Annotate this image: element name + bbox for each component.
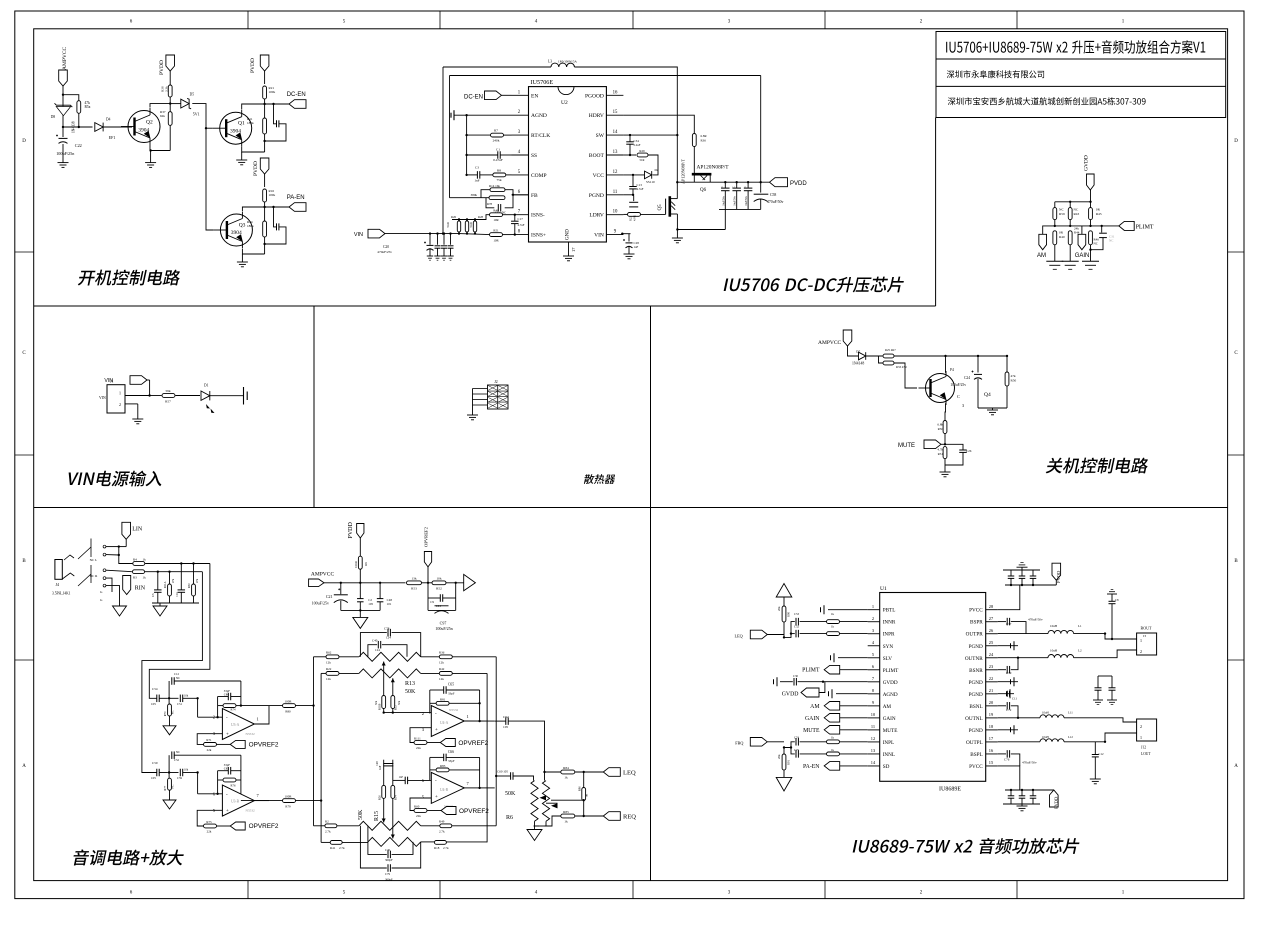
svg-text:R44: R44	[1074, 230, 1080, 234]
svg-text:1k: 1k	[143, 558, 147, 562]
svg-text:U3-B: U3-B	[231, 800, 240, 804]
svg-text:1nF: 1nF	[379, 765, 382, 770]
svg-text:FRQ: FRQ	[735, 741, 743, 746]
svg-text:3904: 3904	[138, 127, 149, 133]
svg-text:D5: D5	[190, 93, 195, 97]
svg-text:NC: NC	[172, 784, 175, 788]
svg-text:PA-EN: PA-EN	[803, 764, 820, 770]
svg-text:NC: NC	[1074, 208, 1079, 212]
svg-text:RIN: RIN	[135, 586, 146, 592]
svg-text:LEQ: LEQ	[623, 770, 636, 777]
svg-text:51R: 51R	[639, 158, 644, 162]
svg-text:0R: 0R	[1059, 231, 1064, 235]
svg-text:4: 4	[872, 640, 875, 645]
svg-text:GVDD: GVDD	[782, 691, 799, 697]
svg-text:10uH: 10uH	[1050, 649, 1058, 653]
svg-text:17: 17	[989, 736, 994, 741]
svg-text:R76: R76	[230, 784, 236, 788]
svg-text:1: 1	[1140, 735, 1142, 740]
svg-text:360pF: 360pF	[385, 858, 393, 862]
svg-text:OPVREF2: OPVREF2	[423, 526, 428, 547]
svg-text:180k: 180k	[247, 224, 254, 228]
svg-text:3: 3	[728, 891, 731, 896]
svg-text:NC: NC	[172, 710, 175, 714]
svg-text:20k: 20k	[777, 606, 781, 611]
svg-text:PGND: PGND	[969, 680, 983, 686]
svg-text:12k: 12k	[326, 661, 331, 665]
svg-text:R11B: R11B	[379, 703, 382, 710]
svg-text:360pF: 360pF	[385, 878, 393, 882]
svg-text:1: 1	[1122, 891, 1125, 896]
svg-text:HDRV: HDRV	[589, 113, 604, 119]
svg-text:R30: R30	[938, 427, 944, 431]
svg-text:C12: C12	[1099, 752, 1105, 756]
svg-text:J12: J12	[1141, 746, 1146, 750]
svg-text:33pF: 33pF	[448, 759, 455, 763]
svg-text:PVDD: PVDD	[253, 161, 259, 176]
svg-text:26: 26	[989, 628, 994, 633]
svg-text:C26: C26	[966, 449, 972, 453]
svg-text:47k: 47k	[196, 578, 199, 583]
svg-text:7: 7	[257, 793, 260, 798]
svg-text:3.5PH_J4K1: 3.5PH_J4K1	[52, 592, 71, 596]
svg-text:15: 15	[613, 110, 618, 115]
svg-text:IU8689E: IU8689E	[939, 787, 961, 793]
svg-text:C77: C77	[1006, 622, 1012, 626]
svg-text:AMPVCC: AMPVCC	[818, 340, 842, 346]
svg-text:1: 1	[1122, 20, 1125, 25]
svg-text:PGND: PGND	[589, 193, 604, 199]
svg-text:U2: U2	[561, 100, 568, 106]
svg-text:2.7k: 2.7k	[339, 846, 345, 850]
svg-text:1k: 1k	[831, 748, 835, 752]
svg-text:U4-A: U4-A	[440, 721, 449, 725]
svg-text:R81: R81	[440, 697, 446, 701]
svg-text:R84: R84	[563, 766, 569, 770]
svg-text:R71: R71	[206, 738, 212, 742]
svg-text:22k: 22k	[207, 748, 212, 752]
svg-text:Q5: Q5	[658, 204, 663, 211]
svg-text:R36: R36	[701, 139, 707, 143]
svg-text:C: C	[22, 351, 26, 356]
svg-text:NC: NC	[176, 750, 180, 754]
svg-text:105: 105	[368, 602, 373, 606]
svg-text:10uF/50v: 10uF/50v	[734, 195, 737, 206]
svg-text:2: 2	[920, 20, 923, 25]
svg-text:C5: C5	[151, 593, 155, 597]
svg-text:PVDD: PVDD	[159, 60, 165, 75]
svg-text:1: 1	[872, 604, 874, 609]
svg-text:12: 12	[871, 736, 875, 741]
svg-text:7mR: 7mR	[469, 222, 473, 228]
svg-text:GAIN: GAIN	[805, 716, 820, 722]
svg-text:22k: 22k	[416, 814, 421, 818]
svg-text:9: 9	[614, 230, 617, 235]
svg-text:GAIN: GAIN	[1075, 253, 1090, 259]
svg-text:D8: D8	[51, 115, 56, 119]
svg-text:2: 2	[872, 616, 874, 621]
svg-text:2.7k: 2.7k	[443, 846, 449, 850]
svg-text:11: 11	[871, 724, 875, 729]
svg-text:PVDD: PVDD	[1054, 796, 1059, 809]
svg-text:16: 16	[989, 748, 994, 753]
svg-text:IU5706E: IU5706E	[531, 79, 554, 86]
svg-text:L1: L1	[1078, 624, 1082, 628]
svg-text:PVDD: PVDD	[1056, 570, 1061, 583]
svg-text:R60: R60	[414, 804, 420, 808]
svg-text:50k: 50k	[375, 700, 378, 705]
svg-text:1nF: 1nF	[399, 776, 404, 779]
svg-text:2.2uF: 2.2uF	[634, 143, 641, 147]
svg-text:R83: R83	[440, 764, 446, 768]
svg-text:4: 4	[535, 891, 538, 896]
svg-text:D1: D1	[204, 384, 209, 388]
svg-text:OUTPL: OUTPL	[966, 740, 983, 746]
svg-text:R29: R29	[639, 149, 645, 153]
svg-text:22: 22	[989, 676, 993, 681]
svg-text:C79: C79	[1006, 671, 1012, 675]
svg-text:D7: D7	[856, 350, 860, 354]
svg-text:470uF/50v: 470uF/50v	[1022, 761, 1037, 765]
svg-text:+: +	[435, 795, 438, 800]
svg-text:PVDD: PVDD	[348, 521, 354, 538]
svg-text:SW: SW	[596, 133, 605, 139]
svg-text:7: 7	[518, 210, 521, 215]
svg-text:DC-EN: DC-EN	[464, 94, 483, 100]
svg-text:2: 2	[1140, 649, 1142, 654]
svg-text:21: 21	[989, 688, 993, 693]
svg-text:1nF: 1nF	[474, 179, 479, 183]
svg-text:EF1: EF1	[109, 135, 116, 140]
svg-text:R14: R14	[395, 795, 398, 800]
svg-text:1: 1	[467, 714, 469, 719]
svg-text:1: 1	[119, 391, 121, 396]
svg-text:AMPVCC: AMPVCC	[62, 46, 68, 70]
svg-text:7: 7	[467, 781, 470, 786]
svg-text:10uF/50v: 10uF/50v	[722, 195, 725, 206]
svg-text:C40: C40	[372, 639, 378, 643]
svg-text:MUTE: MUTE	[883, 728, 898, 734]
svg-text:PLIMT: PLIMT	[802, 668, 820, 674]
svg-text:R86: R86	[579, 786, 582, 791]
svg-text:PLIMT: PLIMT	[883, 668, 899, 674]
svg-text:3: 3	[728, 20, 731, 25]
svg-text:R25 4R7: R25 4R7	[885, 348, 896, 352]
svg-text:50k: 50k	[398, 700, 401, 705]
svg-text:47k: 47k	[172, 578, 175, 583]
svg-text:OUTNR: OUTNR	[965, 656, 983, 662]
svg-text:PA-EN: PA-EN	[287, 195, 305, 201]
svg-text:R26: R26	[379, 795, 382, 800]
svg-text:PVCC: PVCC	[969, 608, 983, 614]
svg-text:Q1: Q1	[238, 121, 245, 127]
svg-text:10uH: 10uH	[1050, 624, 1058, 628]
svg-text:100k: 100k	[269, 193, 276, 197]
svg-text:OUTPR: OUTPR	[966, 632, 984, 638]
svg-text:100R: 100R	[285, 699, 293, 703]
svg-text:U4-B: U4-B	[440, 788, 449, 792]
svg-text:7mR: 7mR	[446, 222, 450, 228]
svg-text:1R0/100W/5A: 1R0/100W/5A	[558, 60, 577, 64]
svg-text:BSPL: BSPL	[970, 752, 982, 758]
svg-text:101: 101	[387, 602, 392, 606]
svg-text:C78: C78	[384, 626, 390, 630]
svg-text:C84: C84	[224, 692, 230, 696]
svg-text:PGND: PGND	[969, 728, 983, 734]
svg-text:1k: 1k	[143, 576, 147, 580]
svg-text:R8: R8	[497, 169, 501, 173]
svg-text:R26: R26	[451, 215, 457, 219]
svg-text:OPVREF2: OPVREF2	[249, 823, 279, 830]
svg-text:100uF/25n: 100uF/25n	[56, 151, 75, 156]
svg-text:20k: 20k	[777, 754, 781, 759]
svg-text:R78: R78	[487, 202, 493, 206]
svg-text:180k: 180k	[247, 121, 254, 125]
svg-text:0.47uF: 0.47uF	[493, 158, 503, 162]
svg-text:R70: R70	[164, 711, 167, 716]
svg-text:VIN: VIN	[594, 233, 604, 239]
svg-text:6.8k: 6.8k	[937, 423, 943, 427]
svg-text:C11: C11	[1012, 697, 1017, 701]
svg-text:5: 5	[872, 652, 875, 657]
svg-text:+: +	[435, 728, 438, 733]
svg-text:U3-A: U3-A	[231, 723, 240, 727]
svg-text:L11: L11	[1068, 711, 1073, 715]
svg-text:R51: R51	[493, 229, 499, 233]
svg-text:DC-EN: DC-EN	[287, 92, 306, 98]
svg-text:D4: D4	[106, 118, 111, 122]
svg-text:6: 6	[518, 190, 521, 195]
svg-text:R13: R13	[405, 681, 415, 687]
svg-text:R42: R42	[439, 667, 445, 671]
svg-text:0R: 0R	[1096, 208, 1101, 212]
svg-text:15: 15	[989, 760, 994, 765]
svg-text:R75: R75	[206, 820, 212, 824]
svg-text:GND: GND	[565, 229, 570, 240]
svg-text:BSNR: BSNR	[969, 668, 983, 674]
svg-text:13: 13	[871, 748, 876, 753]
svg-text:2: 2	[422, 711, 424, 716]
svg-text:13k: 13k	[411, 576, 416, 580]
svg-text:1: 1	[1140, 638, 1142, 643]
svg-text:OPVREF2: OPVREF2	[458, 740, 488, 747]
svg-text:EN: EN	[531, 93, 538, 99]
svg-text:R45: R45	[1096, 212, 1102, 216]
svg-text:L12: L12	[1068, 735, 1073, 739]
svg-text:VCC: VCC	[593, 173, 605, 179]
svg-text:AM: AM	[810, 704, 819, 710]
svg-text:2.7k: 2.7k	[439, 830, 445, 834]
svg-text:5: 5	[518, 170, 521, 175]
svg-text:C: C	[957, 394, 960, 399]
svg-text:4: 4	[535, 20, 538, 25]
svg-text:7: 7	[872, 676, 875, 681]
svg-text:1: 1	[257, 717, 259, 722]
svg-text:SYN: SYN	[883, 644, 894, 650]
svg-text:NC: NC	[1109, 239, 1113, 243]
svg-text:VIN: VIN	[99, 396, 106, 400]
svg-text:U1: U1	[880, 586, 887, 592]
svg-text:RT/CLK: RT/CLK	[531, 133, 550, 139]
svg-text:C22: C22	[75, 143, 82, 148]
svg-text:1k: 1k	[831, 736, 835, 740]
svg-text:C60 105: C60 105	[497, 770, 508, 774]
svg-text:R2: R2	[325, 820, 329, 824]
svg-text:G: G	[100, 598, 103, 602]
svg-text:10: 10	[871, 712, 876, 717]
svg-text:L3: L3	[548, 60, 552, 64]
svg-text:100uF/25n: 100uF/25n	[435, 626, 452, 631]
svg-text:R14 16k: R14 16k	[489, 184, 500, 188]
svg-text:6.8R: 6.8R	[701, 134, 708, 138]
svg-text:9: 9	[872, 700, 875, 705]
svg-text:105: 105	[503, 725, 508, 729]
svg-text:1k: 1k	[831, 624, 835, 628]
svg-text:P4: P4	[950, 368, 954, 372]
svg-text:11: 11	[613, 190, 618, 195]
svg-text:C75: C75	[794, 748, 800, 752]
svg-text:R50: R50	[1011, 379, 1017, 383]
svg-text:SS: SS	[531, 153, 537, 159]
svg-text:VIN: VIN	[104, 378, 113, 384]
svg-text:C: C	[744, 186, 747, 188]
svg-text:C9: C9	[430, 600, 434, 604]
svg-text:ISNS+: ISNS+	[531, 233, 546, 239]
svg-text:10k: 10k	[436, 576, 441, 580]
svg-text:62k: 62k	[160, 114, 165, 118]
svg-text:REQ: REQ	[623, 814, 636, 821]
svg-text:3: 3	[872, 628, 875, 633]
svg-text:PVDD: PVDD	[250, 58, 256, 73]
svg-text:R57: R57	[165, 400, 171, 404]
svg-text:Q3: Q3	[239, 223, 246, 229]
svg-text:380k: 380k	[471, 193, 478, 197]
svg-text:12: 12	[613, 170, 618, 175]
svg-text:SLV: SLV	[883, 656, 893, 662]
svg-text:47k: 47k	[1011, 374, 1016, 378]
svg-text:50K: 50K	[358, 809, 364, 820]
svg-text:Q4: Q4	[984, 392, 991, 398]
svg-text:3: 3	[518, 130, 521, 135]
svg-text:124: 124	[375, 648, 380, 652]
svg-text:+: +	[226, 733, 229, 738]
svg-text:R40: R40	[493, 209, 499, 213]
svg-text:R28: R28	[478, 215, 484, 219]
svg-text:NC R: NC R	[90, 574, 99, 578]
svg-text:R41: R41	[330, 846, 336, 850]
svg-text:100uF/25v: 100uF/25v	[950, 383, 966, 387]
svg-text:AMPVCC: AMPVCC	[311, 571, 335, 577]
svg-text:D: D	[22, 139, 26, 144]
svg-text:NC L: NC L	[90, 558, 98, 562]
svg-text:2: 2	[213, 715, 215, 720]
svg-text:12k: 12k	[439, 661, 444, 665]
svg-text:14: 14	[613, 130, 618, 135]
svg-text:22k: 22k	[416, 746, 421, 750]
svg-text:A: A	[1234, 764, 1238, 769]
svg-text:C48: C48	[376, 761, 379, 766]
svg-text:25: 25	[989, 640, 994, 645]
svg-text:SD: SD	[883, 764, 890, 770]
svg-text:C79: C79	[385, 872, 391, 876]
svg-text:C52: C52	[794, 624, 800, 628]
svg-text:COMP: COMP	[531, 173, 547, 179]
svg-text:75k: 75k	[496, 178, 501, 182]
svg-text:1N4148: 1N4148	[852, 362, 864, 366]
svg-text:2: 2	[920, 891, 923, 896]
svg-text:100k: 100k	[269, 90, 276, 94]
svg-text:PLIMT: PLIMT	[1136, 225, 1154, 231]
svg-text:R3: R3	[133, 576, 137, 580]
svg-text:50K: 50K	[505, 791, 516, 797]
svg-text:C12: C12	[174, 672, 180, 676]
svg-text:SS110: SS110	[646, 180, 655, 184]
svg-text:VIN: VIN	[354, 232, 363, 238]
svg-text:C54: C54	[152, 687, 158, 691]
svg-text:C3: C3	[475, 166, 479, 170]
svg-text:GAIN: GAIN	[883, 716, 896, 722]
svg-text:22k: 22k	[207, 830, 212, 834]
svg-text:124: 124	[386, 636, 391, 640]
svg-text:R77: R77	[164, 785, 167, 790]
svg-text:C52: C52	[174, 758, 180, 762]
svg-text:C50: C50	[152, 761, 158, 765]
svg-text:3904: 3904	[230, 128, 241, 134]
svg-text:PVCC: PVCC	[969, 764, 983, 770]
svg-text:4.7k: 4.7k	[937, 448, 943, 452]
svg-text:C10: C10	[176, 592, 179, 597]
svg-text:240k: 240k	[493, 138, 500, 142]
svg-text:17: 17	[571, 247, 576, 252]
svg-text:C40: C40	[385, 848, 391, 852]
svg-text:N5532: N5532	[246, 732, 256, 736]
svg-text:10: 10	[613, 210, 618, 215]
svg-text:C66: C66	[448, 750, 454, 754]
svg-text:14: 14	[871, 760, 876, 765]
svg-text:LEQ: LEQ	[735, 634, 743, 639]
svg-text:B: B	[1234, 559, 1238, 564]
svg-text:AM: AM	[883, 704, 892, 710]
svg-text:INNR: INNR	[883, 620, 896, 626]
svg-text:Q6: Q6	[700, 188, 707, 193]
svg-text:33pF: 33pF	[448, 692, 455, 696]
svg-text:GVDD: GVDD	[1084, 155, 1090, 171]
svg-text:C53: C53	[794, 612, 800, 616]
svg-text:C: C	[1234, 351, 1238, 356]
svg-text:100uF/25v: 100uF/25v	[312, 600, 329, 605]
svg-text:PGND: PGND	[969, 644, 983, 650]
svg-text:R40: R40	[1059, 235, 1065, 239]
svg-text:0R: 0R	[586, 794, 589, 797]
svg-text:J3: J3	[1143, 634, 1146, 638]
svg-text:20: 20	[989, 700, 994, 705]
svg-text:105: 105	[151, 776, 156, 780]
svg-text:N5532: N5532	[449, 708, 459, 712]
svg-text:10uH: 10uH	[1042, 735, 1050, 739]
svg-text:5V1: 5V1	[193, 112, 200, 117]
svg-text:4.7uF: 4.7uF	[637, 187, 644, 191]
svg-text:ROUT: ROUT	[1141, 626, 1152, 631]
svg-text:BSPR: BSPR	[970, 620, 983, 626]
svg-text:R5a: R5a	[85, 105, 91, 109]
svg-text:C72: C72	[1006, 708, 1012, 712]
svg-text:18: 18	[989, 724, 994, 729]
svg-text:R36: R36	[439, 651, 445, 655]
svg-text:10k: 10k	[184, 769, 189, 772]
svg-text:1k: 1k	[831, 612, 835, 616]
svg-text:R22: R22	[326, 667, 332, 671]
svg-text:3: 3	[962, 403, 964, 408]
